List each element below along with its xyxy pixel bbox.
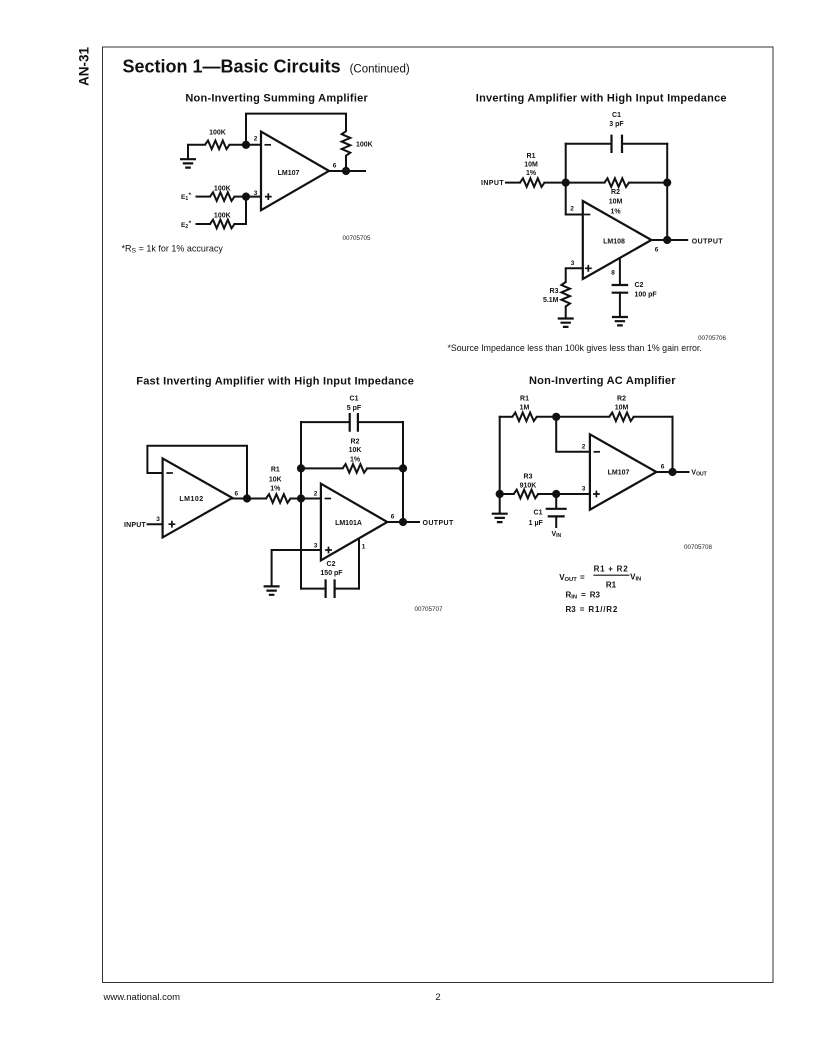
op-amp minus sign (325, 498, 332, 500)
wire: E2 to resistor (197, 223, 211, 225)
ground (left column) (499, 494, 501, 513)
ground (LM101A pin 3) (264, 586, 280, 594)
resistor R1 10K (266, 494, 291, 503)
op-amp U1 LM107 (261, 132, 329, 211)
wire: C2 bottom right segment (335, 588, 359, 590)
wire: right column down to output node (672, 417, 674, 472)
wire: INPUT lead to R1 (506, 182, 520, 184)
svg-text:6: 6 (333, 162, 337, 169)
node: non-inverting summing junction (242, 193, 250, 201)
wire: output stub (673, 471, 689, 473)
wire: node to op-amp pin 3 (246, 196, 261, 198)
svg-text:6: 6 (391, 514, 395, 521)
capacitor C1 plates (546, 509, 567, 517)
wire: right column down to output node (666, 183, 668, 240)
wire: node to R1 (247, 498, 266, 500)
svg-text:R1: R1 (520, 396, 529, 403)
svg-text:10K: 10K (349, 447, 362, 454)
wire: E2 resistor up to summing node (235, 197, 247, 224)
wire: R1 to top node (537, 416, 556, 418)
svg-text:1: 1 (362, 544, 366, 551)
svg-text:R3: R3 (524, 474, 533, 481)
svg-text:LM101A: LM101A (335, 520, 362, 527)
svg-text:100K: 100K (214, 186, 231, 193)
ground (C2) (612, 317, 628, 325)
wire: C1 row right segment (358, 421, 403, 423)
wire: right column R2 row to output node (402, 468, 404, 522)
node: lower-left junction (496, 490, 504, 498)
svg-text:10K: 10K (269, 476, 282, 483)
resistor 100K (inverting input) (205, 141, 229, 150)
wire: C2 to ground (619, 293, 621, 317)
wire: INPUT to pin 3 (148, 523, 163, 525)
svg-text:1%: 1% (610, 208, 621, 215)
wire: C2 bottom left segment (301, 588, 326, 590)
wire: R3 to middle node (538, 493, 556, 495)
wire: output stub (403, 521, 419, 523)
wire: op-amp output to node (651, 239, 667, 241)
wire: top row left lead (500, 416, 513, 418)
resistor R2 10K (feedback) (343, 464, 368, 473)
svg-text:LM102: LM102 (179, 496, 203, 503)
wire: R1 to center node (291, 498, 302, 500)
svg-text:1%: 1% (270, 486, 281, 493)
wire: pin 3 to R3 column (566, 268, 583, 282)
svg-text:C2: C2 (635, 282, 644, 289)
resistor R1 1M (512, 413, 537, 422)
svg-text:100 pF: 100 pF (635, 292, 658, 299)
wire: left column C1 row down to input node (565, 144, 567, 183)
op-amp plus sign (265, 193, 272, 200)
svg-text:3: 3 (314, 542, 318, 549)
svg-text:R1: R1 (527, 153, 536, 160)
wire: C1 row left segment (301, 421, 350, 423)
wire: E1 resistor to summing node (235, 196, 247, 198)
op-amp minus sign (594, 451, 601, 453)
svg-text:6: 6 (655, 246, 659, 253)
svg-text:*RS = 1k for 1% accuracy: *RS = 1k for 1% accuracy (122, 244, 224, 255)
svg-text:C1: C1 (350, 395, 359, 402)
wire: resistor to inverting input node (230, 144, 247, 146)
svg-text:2: 2 (582, 443, 586, 450)
capacitor C2 plates (326, 579, 335, 598)
wire: node to R2 (566, 182, 605, 184)
wire: R2 row left segment (301, 467, 343, 469)
resistor 100K (E2) (210, 220, 234, 229)
svg-text:100K: 100K (214, 213, 231, 220)
svg-text:C1: C1 (612, 112, 621, 119)
svg-text:5 pF: 5 pF (347, 405, 362, 412)
resistor R2 10M (feedback) (605, 178, 630, 187)
svg-text:2: 2 (314, 490, 318, 497)
resistor R2 10M (609, 413, 634, 422)
wire: left column down to lower row (499, 417, 501, 494)
svg-text:6: 6 (234, 490, 238, 497)
wire: feedback resistor to output node (345, 156, 347, 171)
op-amp U2 LM101A (321, 484, 387, 561)
svg-text:10M: 10M (615, 404, 629, 411)
svg-text:C1: C1 (534, 510, 543, 517)
wire: node to op-amp pin 2 (246, 144, 261, 146)
node: LM102 output (243, 494, 251, 502)
wire: C1 feedback left segment (566, 143, 612, 145)
resistor 100K (E1) (210, 192, 234, 201)
wire: pin 8 down to C2 (619, 259, 621, 284)
op-amp plus sign (325, 547, 332, 554)
node: output (342, 167, 350, 175)
svg-text:6: 6 (661, 463, 665, 470)
svg-text:10M: 10M (524, 161, 538, 168)
wire: R3 to ground (565, 307, 567, 318)
op-amp U1 LM108 (583, 201, 652, 279)
op-amp U1 LM107 (590, 434, 657, 509)
node: R2 left junction (297, 464, 305, 472)
svg-text:3: 3 (571, 260, 575, 267)
svg-text:2: 2 (254, 135, 258, 142)
svg-text:Non-Inverting Summing Amplifie: Non-Inverting Summing Amplifier (185, 93, 368, 105)
svg-text:Non-Inverting AC Amplifier: Non-Inverting AC Amplifier (529, 375, 676, 387)
svg-text:00705708: 00705708 (684, 544, 713, 551)
svg-text:3 pF: 3 pF (609, 121, 624, 128)
wire: middle node to pin 3 (556, 493, 590, 495)
svg-text:*Source Impedance less than 10: *Source Impedance less than 100k gives l… (448, 343, 702, 353)
svg-text:8: 8 (611, 270, 615, 277)
svg-text:AN-31: AN-31 (77, 47, 92, 87)
node: R2 right junction (399, 464, 407, 472)
wire: op-amp output to node (656, 471, 672, 473)
svg-text:VOUT: VOUT (691, 470, 706, 478)
resistor R3 910K (514, 490, 539, 499)
svg-text:00705706: 00705706 (698, 335, 727, 342)
svg-text:C2: C2 (327, 561, 336, 568)
svg-text:INPUT: INPUT (124, 522, 147, 529)
capacitor C1 plates (350, 413, 358, 432)
svg-text:R2: R2 (617, 396, 626, 403)
wire: R2 row right segment (367, 467, 403, 469)
svg-text:1M: 1M (520, 404, 530, 411)
svg-text:2: 2 (435, 992, 440, 1003)
svg-text:150 pF: 150 pF (320, 570, 343, 577)
svg-text:VIN: VIN (552, 531, 562, 539)
wire: lower row left lead (500, 493, 514, 495)
wire: output stub (667, 239, 687, 241)
svg-text:RIN=R3: RIN=R3 (566, 591, 601, 601)
node: output (668, 468, 676, 476)
node: center junction (297, 494, 305, 502)
svg-text:1 µF: 1 µF (529, 520, 544, 527)
wire: center node to LM101A pin 2 (301, 498, 321, 500)
svg-text:LM108: LM108 (603, 238, 625, 245)
resistor 100K (feedback, vertical) (342, 131, 351, 155)
wire: C1 feedback right segment (622, 143, 667, 145)
node: middle junction (552, 490, 560, 498)
wire: C1 to VIN (555, 516, 557, 527)
node: output (399, 518, 407, 526)
wire: E1 to resistor (197, 196, 211, 198)
node: summing junction (562, 179, 570, 187)
svg-text:00705705: 00705705 (342, 235, 371, 242)
op-amp U1 LM102 (163, 458, 233, 537)
wire: op-amp output to node (329, 170, 346, 172)
wire: feedback from inverting input node to output resistor (246, 114, 346, 145)
wire: pin 1 down to C2 row (358, 539, 360, 589)
node: top junction (552, 413, 560, 421)
svg-text:R1: R1 (606, 580, 617, 589)
svg-text:100K: 100K (209, 129, 226, 136)
svg-text:R2: R2 (351, 438, 360, 445)
wire: pin 3 left to ground column (272, 550, 321, 586)
capacitor C1 plates (612, 135, 623, 153)
capacitor C2 plates (612, 285, 629, 293)
svg-text:10M: 10M (609, 198, 623, 205)
wire: right column C1 to R2 row (402, 422, 404, 468)
node: right column junction (663, 179, 671, 187)
svg-text:3: 3 (156, 516, 160, 523)
ground (R3) (558, 319, 574, 327)
wire: R1 to input node (545, 182, 566, 184)
wire: R2 to right column (634, 416, 673, 418)
svg-text:2: 2 (570, 206, 574, 213)
wire: summing node down and into pin 2 (566, 183, 583, 215)
svg-text:3: 3 (582, 486, 586, 493)
node: output (663, 236, 671, 244)
wire: middle node down to C1 (555, 494, 557, 508)
svg-text:LM107: LM107 (278, 170, 300, 177)
wire: ground to 100K resistor (188, 145, 205, 159)
wire: left column C1 to R2 row (300, 422, 302, 468)
op-amp minus sign (166, 472, 173, 474)
op-amp minus sign (265, 144, 272, 146)
svg-text:OUTPUT: OUTPUT (423, 520, 454, 527)
svg-text:Inverting Amplifier with High: Inverting Amplifier with High Input Impe… (476, 93, 727, 105)
page border frame (103, 47, 774, 983)
op-amp minus sign (584, 214, 591, 216)
svg-text:3: 3 (254, 190, 258, 197)
wire: center column R2 row to C2 bottom row (300, 468, 302, 588)
wire: top node down and into pin 2 (556, 417, 590, 452)
resistor R1 10M (input) (520, 178, 545, 187)
wire: LM102 feedback loop (147, 446, 247, 499)
svg-text:R3: R3 (550, 288, 559, 295)
op-amp plus sign (593, 491, 600, 498)
svg-text:R1 + R2: R1 + R2 (594, 564, 629, 573)
svg-text:5.1M: 5.1M (543, 297, 559, 304)
svg-text:www.national.com: www.national.com (103, 992, 181, 1003)
op-amp plus sign (169, 521, 176, 528)
svg-text:100K: 100K (356, 141, 373, 148)
wire: output stub (346, 170, 365, 172)
op-amp plus sign (585, 265, 592, 272)
ground (input resistor) (180, 159, 196, 167)
svg-text:00705707: 00705707 (414, 606, 443, 613)
svg-text:R2: R2 (611, 189, 620, 196)
svg-text:LM107: LM107 (608, 470, 630, 477)
node: inverting input junction (242, 141, 250, 149)
svg-text:1%: 1% (350, 456, 361, 463)
wire: top node to R2 (556, 416, 609, 418)
svg-text:Fast Inverting Amplifier with: Fast Inverting Amplifier with High Input… (136, 376, 414, 388)
wire: R2 to right column (629, 182, 667, 184)
svg-text:R3=R1//R2: R3=R1//R2 (566, 605, 619, 614)
svg-text:INPUT: INPUT (481, 180, 504, 187)
wire: LM102 output to node (232, 498, 247, 500)
svg-text:OUTPUT: OUTPUT (692, 238, 723, 245)
resistor R3 5.1M (vertical) (561, 282, 570, 307)
svg-text:1%: 1% (526, 170, 537, 177)
wire: right column C1 row down to R2 row (666, 144, 668, 183)
wire: LM101A output to node (387, 521, 403, 523)
svg-text:R1: R1 (271, 467, 280, 474)
svg-text:910K: 910K (520, 482, 537, 489)
